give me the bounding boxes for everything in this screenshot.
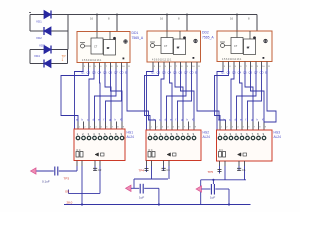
IC2 bottom pin stub 1 [152, 62, 154, 69]
HG3 bottom pin x219.5 [219, 161, 221, 166]
wire mesh g1 carry to HG2 [127, 69, 156, 122]
svg-text:DD1: DD1 [132, 31, 139, 35]
svg-text:AL24: AL24 [127, 135, 135, 139]
glyph cap C4 bar1 [162, 167, 166, 169]
HG2 digit box 2 [152, 152, 155, 158]
wire mesh g2 pin7 [167, 69, 187, 122]
HG1 triangle glyph [95, 153, 99, 156]
wire HG2 pin3 [163, 166, 165, 171]
svg-text:D C: D C [219, 149, 223, 152]
wire HG2 pin1 [146, 166, 148, 172]
HG2 bottom pin x146.5 [146, 161, 148, 167]
wire diode row 1 left [30, 14, 44, 16]
IC2 bottom pin stub 3 [163, 62, 165, 69]
wire arrow2 to C3 [131, 187, 139, 189]
svg-text:HG1: HG1 [127, 131, 134, 135]
HG3 segment circle 6 [246, 136, 250, 140]
svg-text:CT: CT [164, 45, 168, 48]
DD2 inner square 1 [161, 38, 173, 54]
HG1 segment circle 2 [82, 136, 86, 140]
HG1 segment circle 1 [76, 136, 80, 140]
HG3 top pin stub 9 [263, 122, 265, 131]
svg-text:16: 16 [90, 17, 94, 21]
wire arrow1 to C1 [36, 170, 54, 172]
HG2 segment circle 8 [187, 136, 191, 140]
counter IC DD3 body [217, 31, 272, 62]
wire mesh g2 pin8 [178, 69, 192, 122]
HG2 segment circle 2 [154, 136, 158, 140]
IC1 bottom pin stub 2 [88, 63, 90, 70]
svg-text:VD2: VD2 [36, 36, 42, 40]
DD1 inner square 1 [91, 38, 103, 54]
HG2 segment circle 3 [159, 136, 163, 140]
capacitor C1 plate 1 [54, 167, 56, 176]
svg-text:CT: CT [94, 46, 98, 49]
DD3 clock mark [253, 36, 256, 39]
DD1 mid mark [107, 47, 109, 49]
HG2 segment circle 9 [192, 136, 196, 140]
HG3 digit box 2 [223, 152, 226, 158]
HG2 top pin stub 5 [171, 122, 173, 131]
svg-text:16: 16 [160, 17, 164, 21]
svg-text:4 5 6 9 10 12 13 1: 4 5 6 9 10 12 13 1 [152, 59, 172, 62]
IC3 bottom pin stub 5 [244, 62, 246, 70]
HG1 segment circle 9 [120, 136, 124, 140]
wire mesh g2 carry to HG3 [197, 69, 226, 122]
glyph cap C6 bar2 [237, 169, 241, 171]
DD1 oscillator glyph [81, 44, 85, 48]
svg-text:VD3: VD3 [39, 44, 45, 48]
HG1 digit box 1 [76, 152, 79, 158]
LED display HG3 body [217, 130, 273, 161]
wire diode row 3 right [51, 49, 68, 51]
wire mesh g1 pin8 [106, 69, 122, 122]
junction bottom rail 3 [228, 203, 230, 205]
wire mesh g2 pin5 [175, 69, 183, 122]
wire mesh g3 pin2 detour [215, 69, 229, 122]
terminal tick [29, 12, 31, 14]
wire diode row 4 right [51, 63, 68, 65]
HG3 top pin stub 6 [247, 122, 249, 131]
HG3 segment circle 5 [240, 136, 244, 140]
wire mesh g2 pin3 [161, 69, 164, 122]
wire mid horizontal HG3 [201, 179, 246, 181]
IC2 bottom pin stub 2 [158, 62, 160, 69]
wire HG3 pin4 down [244, 166, 246, 180]
HG2 bottom pin x163.5 [163, 161, 165, 167]
junction mid HG3 [212, 179, 214, 181]
diode VD2 [44, 27, 51, 35]
svg-text:AL24: AL24 [203, 135, 211, 139]
wire diode row 4 left [30, 63, 44, 65]
wire HG1 pin to C1 [76, 166, 78, 171]
svg-text:4 5 6 9 10 12 13 1: 4 5 6 9 10 12 13 1 [222, 58, 242, 61]
HG2 top pin stub 2 [155, 122, 157, 131]
HG3 top pin stub 1 [219, 122, 221, 131]
IC3 bottom pin stub 6 [250, 62, 252, 70]
HG1 top pin stub 8 [116, 122, 118, 130]
DD3 corner mark [263, 57, 265, 59]
svg-text:TP5: TP5 [208, 170, 214, 174]
junction rail DD2 A [166, 14, 168, 16]
svg-text:GN: GN [65, 190, 69, 194]
HG3 digit box 1 [219, 152, 222, 158]
glyph cap bar HG3a [218, 169, 222, 171]
HG1 segment circle 5 [98, 136, 102, 140]
wire C5 right [215, 188, 229, 190]
diode VD3 [44, 46, 51, 54]
svg-text:AL24: AL24 [274, 135, 282, 139]
wire mesh g1 pin3 [89, 69, 94, 122]
HG1 bottom pin x95 [94, 161, 96, 167]
wire down to cap C3 level [133, 179, 135, 188]
HG2 segment circle 6 [176, 136, 180, 140]
wire C1 to HG1 pin [59, 170, 77, 172]
counter IC DD2 body [147, 31, 201, 62]
HG3 square glyph [243, 153, 247, 156]
IC1 bottom pin stub 4 [99, 63, 101, 70]
HG1 top pin stub 2 [83, 122, 85, 130]
svg-text:C2: C2 [98, 168, 102, 172]
wire HG1 pin2 to bottom rail [81, 166, 83, 205]
LED display HG2 body [146, 130, 201, 161]
HG1 top pin stub 7 [110, 122, 112, 130]
wire mid horizontal HG2 [134, 178, 168, 180]
svg-text:TP3: TP3 [64, 177, 70, 181]
svg-text:TP4: TP4 [139, 169, 145, 173]
glyph cap bar HG3b [218, 171, 222, 173]
DD2 corner mark [193, 57, 195, 59]
DD3 mid mark [247, 47, 249, 49]
HG3 top pin stub 7 [252, 122, 254, 131]
wire diode row 3 left [30, 49, 44, 51]
DD2 inner square 2 [174, 39, 186, 55]
HG3 segment circle 3 [229, 136, 233, 140]
IC2 bottom pin stub 9 [196, 62, 198, 69]
wire bottom-left horizontal [68, 192, 100, 194]
HG2 segment circle 4 [165, 136, 169, 140]
svg-text:VD1: VD1 [36, 20, 42, 24]
HG2 top pin stub 9 [193, 122, 195, 131]
IC1 bottom pin stub 6 [110, 63, 112, 70]
IC1 bottom pin stub 1 [82, 63, 84, 70]
wire mesh g1 pin2 detour [61, 69, 89, 122]
HG2 segment circle 5 [170, 136, 174, 140]
HG2 top pin stub 4 [166, 122, 168, 131]
wire mesh g3 pin7 [237, 69, 257, 122]
svg-text:7565_A: 7565_A [202, 36, 214, 40]
capacitor C5 plate 2 [213, 184, 215, 195]
svg-text:16: 16 [230, 17, 234, 21]
HG2 top pin stub 3 [160, 122, 162, 131]
junction rail DD2 B [186, 14, 188, 16]
wire mesh g1 pin1 corner drop [75, 69, 84, 129]
HG1 segment circle 7 [109, 136, 113, 140]
wire HG1 pin4 down [99, 166, 101, 193]
connector arrow 1 [31, 168, 37, 174]
HG3 bottom pin x244.5 [244, 161, 246, 166]
IC3 bottom pin stub 8 [261, 62, 263, 70]
IC3 bottom pin stub 3 [233, 62, 235, 70]
HG2 segment circle 7 [181, 136, 185, 140]
DD2 oscillator glyph [151, 44, 155, 48]
svg-text:7565_A: 7565_A [132, 36, 144, 40]
HG3 top pin stub 8 [258, 122, 260, 131]
wire mesh g2 pin2 detour [145, 69, 159, 122]
wire top power rail [68, 14, 257, 16]
wire drop to rail 3b [228, 189, 230, 205]
capacitor C3 plate 1 [139, 184, 141, 194]
capacitor C1 plate 2 [57, 167, 59, 176]
DD2 plus-circle mark [194, 39, 197, 42]
IC1 bottom pin stub 7 [115, 63, 117, 70]
svg-text:HG2: HG2 [203, 131, 210, 135]
wire bridge right vertical loop2 [67, 50, 69, 64]
HG1 top pin stub 5 [99, 122, 101, 130]
DD1 clock mark [113, 37, 116, 40]
wire diode row 2 left [30, 30, 44, 32]
svg-text:C6: C6 [242, 168, 246, 172]
IC3 bottom pin stub 2 [228, 62, 230, 70]
HG1 top pin stub 4 [94, 122, 96, 130]
junction bottom rail 1 [81, 203, 83, 205]
HG3 triangle glyph [238, 153, 242, 156]
wire bridge right vertical [67, 15, 69, 50]
svg-text:D C: D C [149, 149, 153, 152]
DD2 mid mark [177, 47, 179, 49]
IC2 bottom pin stub 7 [185, 62, 187, 69]
wire mesh g3 pin8 [248, 69, 262, 122]
HG1 segment circle 6 [104, 136, 108, 140]
HG1 bottom pin x82 [81, 161, 83, 167]
HG2 square glyph [173, 153, 177, 156]
wire bottom ground rail [64, 204, 251, 206]
svg-text:D C: D C [77, 149, 81, 152]
HG2 top pin stub 1 [149, 122, 151, 131]
HG3 segment circle 4 [235, 136, 239, 140]
junction rail DD1 A [96, 14, 98, 16]
HG3 segment circle 8 [257, 136, 261, 140]
LED display HG1 body [74, 129, 125, 161]
HG3 segment circle 7 [251, 136, 255, 140]
diode VD1 [44, 11, 51, 19]
wire mesh g3 pin5 [245, 69, 253, 122]
DD1 plus-circle mark [124, 40, 127, 43]
wire mesh g2 pin4 [170, 69, 173, 122]
HG1 bottom pin x77 [76, 161, 78, 167]
IC3 bottom pin stub 7 [255, 62, 257, 70]
svg-text:28.0: 28.0 [67, 201, 73, 205]
wire stub at 68 [67, 190, 69, 194]
wire HG2 pin2 down [151, 166, 153, 179]
HG2 top pin stub 7 [182, 122, 184, 131]
svg-text:4 5 6 9 10 12 13 1: 4 5 6 9 10 12 13 1 [82, 59, 102, 62]
connector arrow 3 [196, 186, 202, 192]
HG2 bottom pin x169 [168, 161, 170, 167]
wire left drop to rail 3 [200, 180, 202, 205]
HG1 segment circle 8 [115, 136, 119, 140]
wire diode row 2 right [51, 30, 68, 32]
HG1 segment circle 4 [93, 136, 97, 140]
DD3 inner square 2 [244, 39, 256, 55]
wire rail drop to DD2 pin B [186, 15, 188, 32]
wire HG3 pin1 [219, 166, 221, 174]
wire arrow3 to C5 [202, 188, 211, 190]
DD2 clock mark [183, 36, 186, 39]
HG1 bottom pin x100 [99, 161, 101, 167]
wire bridge left vertical loop2 [29, 50, 31, 64]
svg-text:CT: CT [234, 45, 238, 48]
wire mesh g3 pin4 [240, 69, 243, 122]
HG3 bottom pin x239 [238, 161, 240, 166]
HG3 segment circle 1 [218, 136, 222, 140]
HG3 segment circle 9 [262, 136, 266, 140]
IC2 bottom pin stub 8 [191, 62, 193, 69]
wire mesh g3 hook [264, 69, 276, 122]
wire rail drop to DD1 pin B [116, 15, 118, 32]
IC3 bottom pin stub 4 [239, 62, 241, 70]
junction rail DD3 A [236, 14, 238, 16]
capacitor C3 plate 2 [142, 184, 144, 194]
wire C3 to rail drop [144, 187, 159, 189]
wire mesh g1 pin5 [105, 69, 111, 122]
wire mesh g3 pin1 corner drop [217, 69, 223, 130]
capacitor C5 plate 1 [210, 184, 212, 195]
wire HG3 pin3 [238, 166, 240, 171]
svg-text:0.1uF: 0.1uF [42, 180, 50, 184]
svg-text:1uF: 1uF [139, 196, 144, 200]
IC2 bottom pin stub 5 [174, 62, 176, 69]
HG2 bottom pin x151.5 [151, 161, 153, 167]
wire mesh g1 pin7 [95, 69, 117, 122]
HG3 top pin stub 2 [225, 122, 227, 131]
DD3 oscillator glyph [221, 44, 225, 48]
junction bottom rail 2 [158, 203, 160, 205]
HG1 digit box 2 [80, 152, 83, 158]
wire mesh g3 pin6 [251, 69, 265, 122]
wire bridge left vertical loop1 [29, 15, 31, 32]
glyph cap C6 bar1 [237, 167, 241, 169]
wire HG3 pin2 down [224, 166, 226, 180]
HG3 top pin stub 5 [241, 122, 243, 131]
IC1 bottom pin stub 3 [93, 63, 95, 70]
HG1 top pin stub 1 [77, 122, 79, 130]
glyph cap C2 bar2 [93, 169, 97, 171]
HG2 top pin stub 8 [188, 122, 190, 131]
DD1 corner mark [123, 58, 125, 60]
wire mesh g1 pin4 [99, 69, 102, 122]
svg-text:1: 1 [62, 58, 64, 62]
wire mesh g3 pin3 [231, 69, 234, 122]
wire diode row 1 right [51, 14, 68, 16]
wire mesh g2 pin6 [181, 69, 195, 122]
DD3 plus-circle mark [264, 39, 267, 42]
IC1 bottom pin stub 8 [121, 63, 123, 70]
HG1 top pin stub 3 [88, 122, 90, 130]
HG1 square glyph [101, 153, 105, 156]
wire rail drop to DD3 pin B [256, 15, 258, 32]
HG3 segment circle 2 [224, 136, 228, 140]
HG2 triangle glyph [167, 153, 171, 156]
svg-text:VD4: VD4 [34, 54, 40, 58]
wire rail drop to DD2 pin A [166, 15, 168, 32]
wire rail drop to DD3 pin A [236, 15, 238, 32]
HG1 top pin stub 9 [121, 122, 123, 130]
svg-text:C4: C4 [167, 168, 171, 172]
HG1 segment circle 3 [87, 136, 91, 140]
IC2 bottom pin stub 4 [169, 62, 171, 69]
wire mesh g1 pin6 [111, 69, 123, 122]
IC1 bottom pin stub 9 [126, 63, 128, 70]
IC3 bottom pin stub 1 [222, 62, 224, 70]
svg-text:1uF: 1uF [210, 196, 215, 200]
IC1 bottom pin stub 5 [104, 63, 106, 70]
wire to cap C5 [212, 180, 214, 184]
HG2 digit box 1 [148, 152, 151, 158]
junction rail DD1 B [116, 14, 118, 16]
HG2 segment circle 1 [148, 136, 152, 140]
wire HG2 pin4 down [168, 166, 170, 179]
wire drop to rail 2 [158, 188, 160, 204]
wire HG1 pin3 [94, 166, 96, 171]
HG2 top pin stub 6 [177, 122, 179, 131]
glyph cap C4 bar2 [162, 169, 166, 171]
connector arrow 2 [126, 185, 132, 191]
IC3 bottom pin stub 9 [266, 62, 268, 70]
IC2 bottom pin stub 6 [180, 62, 182, 69]
diode VD4 [44, 60, 51, 68]
glyph cap C2 bar1 [93, 167, 97, 169]
DD1 inner square 2 [104, 40, 116, 56]
DD3 inner square 1 [231, 38, 243, 54]
svg-text:HG3: HG3 [274, 131, 281, 135]
counter IC DD1 body [77, 32, 130, 63]
HG3 top pin stub 4 [236, 122, 238, 131]
glyph cap bar HG2a [145, 168, 149, 170]
HG3 top pin stub 3 [230, 122, 232, 131]
wire rail drop to DD1 pin A [96, 15, 98, 32]
glyph cap bar HG2b [145, 170, 149, 172]
wire mesh g2 pin1 corner drop [147, 69, 154, 130]
HG3 bottom pin x225 [224, 161, 226, 166]
HG1 top pin stub 6 [105, 122, 107, 130]
svg-text:DD2: DD2 [202, 31, 209, 35]
